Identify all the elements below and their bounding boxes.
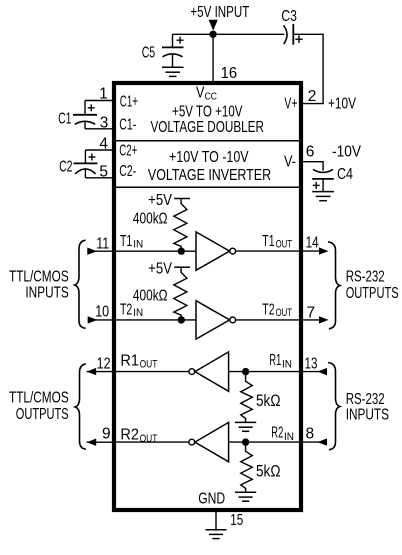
svg-text:6: 6 [306, 143, 315, 160]
receiver R2 [195, 422, 229, 461]
pin 3 wire [85, 128, 114, 130]
receiver R1 [195, 352, 229, 391]
capacitor C5 [162, 34, 184, 67]
svg-text:T2: T2 [120, 302, 132, 319]
power rail +5V (T2 pull-up) [174, 266, 190, 268]
svg-text:5kΩ: 5kΩ [256, 391, 281, 410]
pin 9 arrow [87, 439, 97, 446]
ground (R2 5k) [235, 492, 256, 501]
pin 15 wire [215, 510, 217, 530]
pin 12 wire [87, 371, 114, 373]
node R2 input junction [242, 438, 249, 445]
wire R2 input [229, 441, 301, 443]
svg-text:T1: T1 [120, 233, 132, 250]
svg-text:VOLTAGE INVERTER: VOLTAGE INVERTER [148, 167, 271, 184]
brace RS-232 inputs [328, 363, 340, 450]
bubble R2 [189, 439, 195, 445]
pin 7 arrow [319, 316, 329, 323]
bubble R1 [189, 369, 195, 375]
wire C3 to V+ corner [293, 34, 323, 103]
svg-text:V: V [196, 85, 205, 102]
power rail +5V (T1 pull-up) [174, 198, 190, 200]
resistor 5k (R2) [241, 442, 253, 492]
svg-text:13: 13 [305, 355, 318, 372]
svg-text:CC: CC [205, 91, 218, 103]
svg-text:INPUTS: INPUTS [25, 285, 68, 302]
svg-text:10: 10 [95, 304, 109, 321]
svg-text:15: 15 [230, 512, 243, 529]
ground (C4) [312, 192, 334, 201]
pin 14 wire [301, 250, 320, 252]
svg-text:4: 4 [99, 136, 108, 153]
svg-text:-10V: -10V [332, 144, 362, 161]
svg-text:OUT: OUT [276, 239, 293, 251]
svg-text:1: 1 [99, 85, 108, 102]
svg-text:11: 11 [96, 236, 109, 253]
brace TTL/CMOS inputs [75, 240, 86, 328]
divider line 2 [116, 186, 299, 188]
svg-text:R2: R2 [271, 425, 283, 442]
ground (pin 15) [205, 530, 226, 539]
node T1 input junction [178, 248, 185, 255]
svg-text:3: 3 [100, 115, 109, 132]
svg-text:R1: R1 [120, 352, 139, 369]
pin 5 wire [85, 177, 114, 179]
node T2 input junction [178, 316, 185, 323]
pin 8 wire [301, 441, 327, 443]
svg-text:IN: IN [133, 307, 143, 319]
wire R1 input [229, 371, 301, 373]
svg-text:T2: T2 [262, 302, 274, 319]
svg-text:+10V: +10V [328, 96, 356, 113]
svg-text:RS-232: RS-232 [346, 268, 385, 285]
node +5V input junction [209, 31, 216, 38]
svg-text:C1: C1 [58, 111, 71, 128]
pin 1 wire [85, 100, 114, 102]
svg-text:14: 14 [306, 234, 319, 251]
svg-text:400kΩ: 400kΩ [133, 211, 168, 228]
wire T1 input [114, 250, 196, 252]
svg-text:R2: R2 [120, 427, 139, 444]
svg-text:5: 5 [99, 164, 108, 181]
svg-text:VOLTAGE DOUBLER: VOLTAGE DOUBLER [151, 119, 264, 136]
IC box U1 [114, 83, 301, 510]
svg-text:OUTPUTS: OUTPUTS [346, 285, 399, 302]
svg-text:V+: V+ [284, 95, 297, 112]
resistor 5k (R1) [241, 372, 253, 423]
svg-text:+5V: +5V [148, 192, 172, 209]
pin 6 wire [301, 162, 323, 171]
pin 12 arrow [87, 368, 97, 375]
pin 14 arrow [319, 247, 329, 254]
pin 8 arrow [317, 438, 327, 445]
divider line 1 [116, 140, 299, 142]
wire T2 input [114, 319, 196, 321]
svg-text:+5V INPUT: +5V INPUT [190, 4, 249, 21]
svg-text:+5V TO +10V: +5V TO +10V [172, 104, 243, 121]
svg-text:V-: V- [284, 153, 296, 170]
svg-text:OUT: OUT [140, 433, 158, 445]
svg-text:C4: C4 [337, 166, 353, 183]
pin 13 wire [301, 371, 327, 373]
pin 10 wire [88, 319, 114, 321]
buffer T2 [196, 301, 230, 339]
wire pin 16 [212, 34, 214, 83]
capacitor C4 [312, 169, 334, 191]
node R1 input junction [242, 368, 249, 375]
svg-text:IN: IN [284, 431, 294, 443]
svg-text:8: 8 [306, 425, 315, 442]
pin 11 arrow [87, 248, 97, 255]
wire R2 output [114, 441, 189, 443]
svg-text:IN: IN [133, 239, 143, 251]
svg-text:C2: C2 [59, 159, 72, 176]
svg-text:7: 7 [307, 304, 316, 321]
svg-text:+10V TO -10V: +10V TO -10V [169, 149, 249, 166]
svg-text:R1: R1 [269, 352, 281, 369]
svg-text:2: 2 [308, 88, 317, 105]
pin 11 wire [87, 250, 114, 252]
wire T2 output [236, 319, 301, 321]
svg-text:TTL/CMOS: TTL/CMOS [9, 268, 69, 285]
wire +5V rail [173, 33, 285, 35]
resistor 400k (T2) [174, 267, 187, 320]
pin 10 arrow [88, 316, 98, 323]
capacitor C3 [284, 24, 303, 44]
svg-text:5kΩ: 5kΩ [256, 462, 281, 481]
svg-text:9: 9 [102, 425, 111, 442]
svg-text:400kΩ: 400kΩ [133, 288, 168, 305]
bubble T2 [230, 317, 236, 323]
pin 9 wire [87, 441, 114, 443]
buffer T1 [196, 232, 230, 270]
svg-text:12: 12 [97, 356, 111, 373]
wire T1 output [236, 250, 301, 252]
svg-text:C1-: C1- [119, 117, 136, 134]
bubble T1 [230, 248, 236, 254]
svg-text:C2-: C2- [119, 163, 136, 180]
svg-text:OUT: OUT [276, 307, 293, 319]
svg-text:OUT: OUT [140, 359, 158, 371]
wire R1 output [114, 371, 189, 373]
svg-text:16: 16 [221, 65, 238, 82]
svg-text:IN: IN [282, 358, 292, 370]
pin 4 wire [85, 149, 114, 151]
pin 7 wire [301, 319, 320, 321]
ground (C5) [162, 67, 184, 76]
ground (R1 5k) [235, 422, 256, 431]
arrow +5V input [209, 20, 218, 31]
capacitor C2 [73, 150, 97, 178]
pin 13 arrow [317, 368, 327, 375]
resistor 400k (T1) [174, 199, 187, 252]
svg-text:C5: C5 [142, 45, 155, 62]
svg-text:TTL/CMOS: TTL/CMOS [9, 390, 69, 407]
svg-text:+5V: +5V [148, 261, 172, 278]
svg-text:C3: C3 [281, 8, 297, 25]
svg-text:C2+: C2+ [119, 143, 137, 160]
brace TTL/CMOS outputs [75, 364, 86, 449]
brace RS-232 outputs [328, 242, 340, 329]
svg-text:T1: T1 [262, 233, 274, 250]
svg-text:INPUTS: INPUTS [346, 406, 389, 423]
capacitor C1 [73, 101, 97, 129]
svg-text:GND: GND [198, 490, 225, 507]
svg-text:C1+: C1+ [120, 94, 138, 111]
svg-text:OUTPUTS: OUTPUTS [16, 406, 69, 423]
